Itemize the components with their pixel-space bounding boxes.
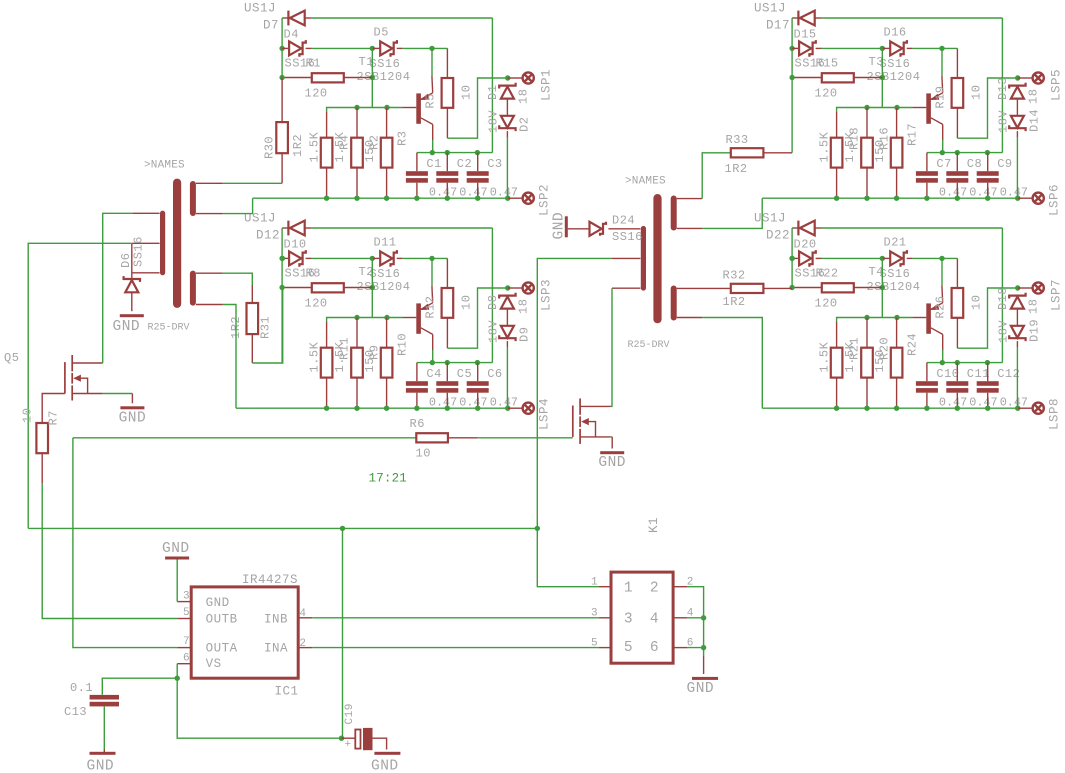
wire xyxy=(702,153,731,199)
junction xyxy=(340,526,345,531)
wire xyxy=(836,378,838,409)
svg-text:4: 4 xyxy=(650,612,659,628)
wire xyxy=(926,183,928,199)
wire K1 pin 2 xyxy=(673,586,687,588)
wire xyxy=(896,168,898,199)
wire xyxy=(386,318,388,348)
junction xyxy=(864,105,869,110)
wire xyxy=(896,378,898,409)
wire xyxy=(306,257,312,259)
wire xyxy=(956,318,958,348)
junction xyxy=(354,105,359,110)
junction xyxy=(1015,406,1020,411)
junction xyxy=(414,196,419,201)
junction xyxy=(324,406,329,411)
wire xyxy=(356,108,358,138)
resistor R33 1R2 xyxy=(731,148,764,157)
wire xyxy=(306,47,312,49)
resistor R12 10 xyxy=(442,288,454,318)
svg-text:0.47: 0.47 xyxy=(459,186,487,200)
capacitor C7 0.47 xyxy=(916,171,938,176)
wire xyxy=(448,437,477,439)
wire xyxy=(1016,309,1018,326)
svg-text:1R2: 1R2 xyxy=(723,295,746,309)
solder pad LSP2 xyxy=(523,193,534,204)
svg-text:0.47: 0.47 xyxy=(459,396,487,410)
resistor R32 1R2 xyxy=(731,284,764,293)
svg-text:4: 4 xyxy=(299,608,306,620)
wire xyxy=(956,393,958,409)
wire xyxy=(792,47,799,49)
wire drain to TR2 xyxy=(611,288,612,406)
svg-text:0.47: 0.47 xyxy=(429,186,457,200)
svg-text:150: 150 xyxy=(363,349,377,372)
wire xyxy=(431,258,433,286)
junction xyxy=(789,285,794,290)
svg-text:150: 150 xyxy=(363,139,377,162)
ground symbol below K1 xyxy=(692,677,718,680)
ground symbol at Q5 source xyxy=(120,406,144,409)
junction xyxy=(505,406,510,411)
zener diode D14 18V xyxy=(1009,116,1025,131)
svg-text:>NAMES: >NAMES xyxy=(144,160,185,172)
svg-text:120: 120 xyxy=(815,297,838,311)
solder pad LSP4 xyxy=(523,403,534,414)
junction xyxy=(370,285,375,290)
wire xyxy=(356,318,358,348)
svg-text:D8: D8 xyxy=(486,295,500,310)
svg-text:5: 5 xyxy=(183,607,190,619)
svg-text:>NAMES: >NAMES xyxy=(625,176,666,188)
svg-text:10: 10 xyxy=(970,85,984,100)
wire xyxy=(253,197,508,199)
junction xyxy=(429,256,434,261)
svg-text:GND: GND xyxy=(87,759,115,773)
transformer TR1 secondary winding 2 xyxy=(190,271,196,306)
resistor R15 120 xyxy=(822,73,854,82)
svg-text:5: 5 xyxy=(624,640,633,656)
svg-text:6: 6 xyxy=(650,640,659,656)
wire xyxy=(305,17,312,19)
junction xyxy=(505,75,510,80)
solder pad LSP7 xyxy=(1033,282,1044,293)
svg-text:SS16: SS16 xyxy=(612,230,643,244)
wire xyxy=(342,737,356,739)
transformer TR2 primary winding xyxy=(641,226,646,291)
junction xyxy=(354,315,359,320)
wire TR2 pin xyxy=(612,257,640,259)
svg-text:1: 1 xyxy=(591,577,598,589)
wire xyxy=(356,378,358,409)
wire xyxy=(854,287,883,289)
wire xyxy=(956,258,958,288)
wire collector xyxy=(432,124,434,140)
wire xyxy=(987,393,989,409)
junction xyxy=(279,285,284,290)
schottky diode D10 (SS16) xyxy=(289,250,306,267)
wire xyxy=(282,287,312,289)
svg-text:D4: D4 xyxy=(284,28,299,42)
capacitor C5 0.47 xyxy=(436,381,458,386)
svg-text:C10: C10 xyxy=(936,367,959,381)
svg-text:0.47: 0.47 xyxy=(490,186,518,200)
resistor R17 150 xyxy=(891,138,903,168)
wire xyxy=(881,288,883,318)
wire xyxy=(402,47,447,49)
svg-text:SS16: SS16 xyxy=(370,267,401,281)
svg-text:C1: C1 xyxy=(426,157,441,171)
svg-text:C3: C3 xyxy=(487,157,502,171)
wire xyxy=(815,17,822,19)
svg-text:LSP1: LSP1 xyxy=(540,69,554,101)
junction xyxy=(880,256,885,261)
resistor R1 120 xyxy=(312,73,344,82)
wire K1 pin 5 xyxy=(599,647,611,649)
junction xyxy=(370,46,375,51)
junction xyxy=(834,406,839,411)
wire xyxy=(702,318,762,409)
svg-text:GND: GND xyxy=(162,541,190,557)
solder pad LSP3 xyxy=(523,282,534,293)
wire xyxy=(41,453,43,483)
wire OUTA net xyxy=(73,438,177,648)
wire caps net xyxy=(417,362,493,364)
svg-text:+: + xyxy=(345,739,352,751)
wire xyxy=(282,227,288,229)
svg-text:1R2: 1R2 xyxy=(291,134,305,157)
resistor R31 1R2 xyxy=(247,303,259,334)
schottky diode D20 (SS16) xyxy=(799,250,816,267)
wire xyxy=(1001,228,1003,363)
wire transformer pin xyxy=(677,317,703,319)
junction xyxy=(324,196,329,201)
svg-text:D7: D7 xyxy=(263,19,279,33)
junction xyxy=(505,196,510,201)
wire IC1 pin 5 xyxy=(177,618,191,620)
junction xyxy=(880,285,885,290)
svg-text:C7: C7 xyxy=(936,157,951,171)
svg-text:R26: R26 xyxy=(934,295,948,318)
wire xyxy=(446,183,448,199)
resistor R11 1.5K xyxy=(321,348,333,378)
svg-text:18V: 18V xyxy=(997,110,1011,133)
wire xyxy=(508,77,522,79)
capacitor C3 0.47 xyxy=(467,171,489,176)
svg-text:5: 5 xyxy=(591,638,598,650)
wire xyxy=(344,77,373,79)
wire Q5 drain to TR1 xyxy=(103,213,133,363)
wire xyxy=(236,407,253,409)
junction xyxy=(834,196,839,201)
svg-text:D13: D13 xyxy=(996,77,1010,100)
svg-text:D17: D17 xyxy=(766,19,790,33)
svg-text:120: 120 xyxy=(305,297,328,311)
wire Q5 source xyxy=(103,393,133,395)
wire OUTA to R6 xyxy=(73,437,416,439)
wire xyxy=(491,18,493,153)
svg-text:OUTB: OUTB xyxy=(206,613,238,627)
resistor R26 10 xyxy=(952,288,964,318)
wire xyxy=(131,243,133,279)
svg-text:R24: R24 xyxy=(905,333,919,356)
junction xyxy=(535,526,540,531)
junction xyxy=(789,46,794,51)
wire VS net left xyxy=(28,243,132,528)
wire xyxy=(131,292,133,311)
junction xyxy=(475,150,480,155)
junction xyxy=(384,196,389,201)
schottky diode D21 (SS16) xyxy=(890,250,907,267)
wire xyxy=(815,227,822,229)
wire xyxy=(1018,197,1032,199)
wire xyxy=(386,108,388,138)
wire xyxy=(956,183,958,199)
svg-text:C19: C19 xyxy=(344,703,356,724)
svg-text:1.5K: 1.5K xyxy=(333,131,347,162)
wire xyxy=(702,198,762,228)
svg-text:D10: D10 xyxy=(284,238,307,252)
svg-text:LSP7: LSP7 xyxy=(1050,279,1064,311)
zener diode D13 18V xyxy=(1009,83,1025,99)
junction xyxy=(1015,196,1020,201)
schottky diode D24 SS16 xyxy=(590,222,607,236)
capacitor C6 0.47 xyxy=(467,381,489,386)
wire INA to K1 pin 5 xyxy=(312,647,599,649)
svg-text:GND: GND xyxy=(598,455,626,471)
svg-text:IC1: IC1 xyxy=(275,685,299,699)
svg-text:GND: GND xyxy=(113,319,141,335)
wire xyxy=(1018,287,1032,289)
wire collector xyxy=(942,124,944,140)
wire xyxy=(103,706,105,749)
wire net to K1 pin 1 xyxy=(537,258,612,586)
schottky diode D5 (SS16) xyxy=(380,40,397,57)
junction xyxy=(955,360,960,365)
junction xyxy=(924,196,929,201)
wire VS net down to C19 xyxy=(342,528,344,738)
junction xyxy=(789,256,794,261)
wire xyxy=(941,48,943,76)
svg-text:US1J: US1J xyxy=(754,2,786,16)
svg-text:VS: VS xyxy=(206,657,222,671)
svg-text:D12: D12 xyxy=(256,229,280,243)
transistor T3 2SB1204 xyxy=(926,93,931,123)
svg-text:0.47: 0.47 xyxy=(1000,396,1028,410)
junction xyxy=(445,150,450,155)
wire xyxy=(223,182,283,184)
resistor R7 10 xyxy=(36,423,48,453)
wire xyxy=(1018,407,1032,409)
wire xyxy=(131,394,133,404)
capacitor C9 0.47 xyxy=(977,171,999,176)
wire xyxy=(907,257,913,259)
wire xyxy=(882,257,890,259)
wire xyxy=(282,77,312,79)
svg-text:10: 10 xyxy=(460,295,474,310)
junction xyxy=(279,256,284,261)
schottky diode D6 SS16 xyxy=(124,276,140,292)
wire xyxy=(371,78,373,108)
wire xyxy=(431,48,433,76)
capacitor C10 0.47 xyxy=(916,381,938,386)
wire pin6 xyxy=(176,664,178,679)
wire xyxy=(432,140,434,153)
svg-text:D14: D14 xyxy=(1028,109,1042,132)
wire TR1 pin xyxy=(132,242,159,244)
diode D12 (US1J) xyxy=(288,221,304,236)
capacitor C11 0.47 xyxy=(946,381,968,386)
diode D17 (US1J) xyxy=(798,11,814,26)
junction xyxy=(955,150,960,155)
wire xyxy=(791,228,793,288)
svg-text:1R2: 1R2 xyxy=(725,162,748,176)
wire transformer pin xyxy=(677,198,703,200)
resistor R4 1.5K xyxy=(321,138,333,168)
wire base net xyxy=(837,318,913,323)
junction xyxy=(894,196,899,201)
wire xyxy=(506,137,508,198)
transformer TR1 secondary winding 1 xyxy=(190,181,196,216)
junction xyxy=(985,406,990,411)
svg-text:LSP5: LSP5 xyxy=(1050,69,1064,101)
wire xyxy=(312,17,493,19)
wire xyxy=(416,393,418,409)
resistor R20 150 xyxy=(861,348,873,378)
wire xyxy=(836,322,838,348)
zener diode D18 18V xyxy=(1009,293,1025,309)
junction xyxy=(279,75,284,80)
wire xyxy=(703,656,705,674)
wire xyxy=(282,17,288,19)
wire R7 to OUTB xyxy=(42,483,177,619)
transformer TR2 secondary winding 1 xyxy=(671,196,677,231)
svg-text:C5: C5 xyxy=(457,367,472,381)
svg-text:R3: R3 xyxy=(395,131,409,146)
wire xyxy=(854,77,883,79)
junction xyxy=(789,75,794,80)
diode D22 (US1J) xyxy=(798,221,814,236)
svg-text:18V: 18V xyxy=(487,320,501,343)
wire xyxy=(987,363,989,382)
resistor R2 150 xyxy=(351,138,363,168)
svg-text:1.5K: 1.5K xyxy=(843,341,857,372)
svg-text:D9: D9 xyxy=(518,327,532,342)
wire xyxy=(942,140,944,153)
svg-text:D1: D1 xyxy=(486,85,500,100)
transistor T4 2SB1204 xyxy=(926,303,931,333)
wire xyxy=(1016,341,1018,347)
svg-text:D22: D22 xyxy=(766,229,790,243)
wire xyxy=(1016,347,1018,408)
svg-text:SS16: SS16 xyxy=(880,57,911,71)
wire TR1 pin xyxy=(132,272,159,274)
svg-text:0.47: 0.47 xyxy=(429,396,457,410)
wire to C13 xyxy=(102,678,177,695)
wire TR2 pin xyxy=(612,287,640,289)
ground symbol at MOSFET source xyxy=(600,451,624,454)
transistor T2 2SB1204 xyxy=(416,303,421,333)
wire xyxy=(816,257,822,259)
resistor R18 1.5K xyxy=(831,138,843,168)
svg-text:R8: R8 xyxy=(306,267,321,281)
svg-text:150: 150 xyxy=(873,139,887,162)
svg-text:R10: R10 xyxy=(395,333,409,356)
svg-text:1.5K: 1.5K xyxy=(308,131,322,162)
capacitor C8 0.47 xyxy=(946,171,968,176)
wire xyxy=(816,47,822,49)
wire xyxy=(402,317,416,319)
junction xyxy=(880,46,885,51)
wire xyxy=(956,153,958,172)
wire K1 pin 6 xyxy=(673,647,687,649)
op-amp/driver IC1 IR4427S xyxy=(191,587,298,678)
wire xyxy=(866,318,868,348)
wire VS to C19 xyxy=(177,678,341,738)
wire caps net xyxy=(927,152,1003,154)
svg-text:0.47: 0.47 xyxy=(969,186,997,200)
wire xyxy=(312,257,373,259)
svg-text:0.47: 0.47 xyxy=(939,186,967,200)
wire xyxy=(942,350,944,363)
svg-text:6: 6 xyxy=(183,653,190,665)
wire pin3 to GND xyxy=(176,560,178,602)
wire TR1 pin xyxy=(132,212,159,214)
svg-text:17:21: 17:21 xyxy=(369,472,408,486)
wire xyxy=(763,287,792,289)
svg-text:OUTA: OUTA xyxy=(206,642,238,656)
wire xyxy=(822,227,1003,229)
wire emitter xyxy=(431,76,434,93)
wire xyxy=(356,168,358,199)
wire transformer pin xyxy=(196,213,223,215)
svg-text:INA: INA xyxy=(264,642,288,656)
junction xyxy=(475,196,480,201)
wire xyxy=(792,17,798,19)
junction xyxy=(430,150,435,155)
wire xyxy=(371,48,373,77)
junction xyxy=(384,315,389,320)
wire xyxy=(907,47,913,49)
svg-text:2: 2 xyxy=(650,581,659,597)
wire R6 to gate xyxy=(477,437,573,439)
solder pad LSP8 xyxy=(1033,403,1044,414)
wire TR2 pin xyxy=(608,228,640,230)
wire xyxy=(687,617,703,619)
junction xyxy=(985,150,990,155)
junction xyxy=(430,360,435,365)
wire xyxy=(987,153,989,172)
svg-text:R32: R32 xyxy=(723,269,746,283)
svg-text:10: 10 xyxy=(21,408,35,423)
svg-text:1.5K: 1.5K xyxy=(333,341,347,372)
wire caps net xyxy=(927,362,1003,364)
wire xyxy=(822,257,883,259)
svg-text:1.5K: 1.5K xyxy=(308,341,322,372)
wire Q5 gate to R7 xyxy=(42,394,65,424)
svg-text:D5: D5 xyxy=(374,26,389,40)
wire xyxy=(446,318,448,348)
wire xyxy=(282,47,289,49)
svg-text:GND: GND xyxy=(371,759,399,773)
wire xyxy=(371,288,373,318)
svg-text:US1J: US1J xyxy=(754,212,786,226)
svg-text:K1: K1 xyxy=(647,517,661,533)
svg-text:GND: GND xyxy=(119,410,147,426)
capacitor C4 0.47 xyxy=(406,381,428,386)
wire xyxy=(446,108,448,138)
ground symbol for D24 xyxy=(565,216,568,237)
svg-text:D24: D24 xyxy=(612,214,635,228)
